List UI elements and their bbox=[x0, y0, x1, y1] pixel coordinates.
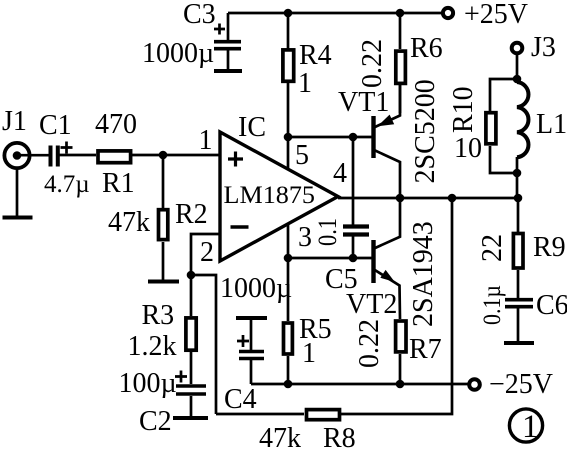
wire output to R9 bbox=[517, 198, 520, 232]
svg-text:1: 1 bbox=[302, 338, 316, 369]
ground (C6) bbox=[504, 341, 534, 345]
node input/R2 junction bbox=[159, 151, 168, 160]
node output/feedback bbox=[448, 194, 457, 203]
wire pin3 bbox=[288, 224, 372, 258]
ground (R2) bbox=[148, 280, 179, 284]
wire pin2 node to feedback bbox=[191, 275, 216, 414]
svg-text:+25V: +25V bbox=[464, 0, 528, 30]
svg-text:0.22: 0.22 bbox=[354, 319, 385, 368]
terminal +25V bbox=[443, 0, 528, 30]
svg-text:IC: IC bbox=[238, 112, 266, 143]
wire R2 to ground bbox=[162, 242, 165, 280]
wire J1 to ground bbox=[16, 168, 19, 216]
capacitor C3 bbox=[142, 0, 241, 69]
resistor R9 bbox=[477, 232, 566, 268]
svg-text:10: 10 bbox=[454, 133, 482, 164]
wire R9 to C6 bbox=[517, 270, 520, 298]
wire R8 to pin2 branch bbox=[216, 413, 304, 416]
capacitor C4 ground bar bbox=[236, 316, 267, 320]
svg-text:R6: R6 bbox=[410, 33, 443, 64]
resistor R10 bbox=[448, 86, 496, 164]
svg-text:J1: J1 bbox=[2, 106, 27, 137]
svg-text:4: 4 bbox=[333, 158, 347, 189]
svg-text:2SC5200: 2SC5200 bbox=[410, 79, 441, 183]
svg-text:1.2k: 1.2k bbox=[128, 331, 177, 362]
wire J1 to C1 bbox=[17, 154, 50, 157]
wire rail to R4 bbox=[287, 13, 290, 49]
svg-text:1: 1 bbox=[298, 68, 312, 99]
svg-text:5: 5 bbox=[295, 140, 309, 171]
capacitor C6 bbox=[479, 285, 567, 341]
node L1/R10 top bbox=[513, 75, 522, 84]
node pin5 bbox=[284, 133, 293, 142]
node R7/-25V rail bbox=[396, 380, 405, 389]
resistor R8 bbox=[259, 410, 356, 451]
svg-text:J3: J3 bbox=[531, 32, 556, 63]
svg-text:470: 470 bbox=[95, 109, 137, 140]
svg-text:0.1µ: 0.1µ bbox=[479, 285, 506, 325]
op-amp U1 LM1875 bbox=[220, 112, 338, 261]
resistor R3 bbox=[128, 275, 197, 362]
svg-text:47k: 47k bbox=[108, 207, 150, 238]
svg-text:47k: 47k bbox=[259, 423, 301, 451]
svg-text:0.1: 0.1 bbox=[313, 218, 342, 246]
svg-text:2SA1943: 2SA1943 bbox=[408, 221, 439, 327]
svg-text:1: 1 bbox=[199, 125, 213, 156]
svg-text:L1: L1 bbox=[536, 109, 567, 140]
svg-text:VT2: VT2 bbox=[346, 289, 397, 320]
node C5 bottom bbox=[349, 254, 358, 263]
ground (C2) bbox=[173, 416, 208, 420]
node pin2/R3 bbox=[187, 271, 196, 280]
svg-text:4.7µ: 4.7µ bbox=[44, 171, 90, 198]
svg-text:C2: C2 bbox=[139, 406, 172, 437]
wire pin2 bbox=[191, 234, 220, 275]
wire pin5 to VT1 base bbox=[288, 136, 372, 139]
svg-text:C3: C3 bbox=[183, 0, 216, 30]
capacitor C1 bbox=[39, 110, 90, 198]
resistor R2 bbox=[108, 199, 208, 240]
svg-text:C4: C4 bbox=[224, 384, 257, 415]
transistor Q2 VT2 bbox=[346, 198, 439, 327]
node rail/R6 bbox=[396, 9, 405, 18]
resistor R4 bbox=[283, 40, 332, 99]
svg-text:R8: R8 bbox=[323, 423, 356, 451]
svg-text:2: 2 bbox=[200, 237, 214, 268]
svg-text:0.22: 0.22 bbox=[357, 39, 388, 88]
svg-text:VT1: VT1 bbox=[338, 87, 389, 118]
svg-text:R4: R4 bbox=[299, 40, 332, 71]
node pin3/R5 bbox=[284, 254, 293, 263]
wire R4 to pin5 node bbox=[287, 82, 290, 169]
wire R7 to -25V rail bbox=[399, 354, 402, 384]
-25V rail bbox=[251, 383, 468, 386]
ground (C3) bbox=[214, 69, 242, 73]
capacitor C5 bbox=[313, 137, 369, 295]
node C5 top bbox=[349, 133, 358, 142]
svg-text:100µ: 100µ bbox=[119, 368, 177, 399]
output rail bbox=[338, 197, 518, 200]
wire C1 to R1 bbox=[60, 154, 97, 157]
svg-text:C6: C6 bbox=[536, 290, 567, 321]
svg-text:R3: R3 bbox=[142, 300, 175, 331]
wire node to R2 bbox=[162, 155, 165, 208]
figure number 1 bbox=[509, 409, 542, 445]
svg-text:1000µ: 1000µ bbox=[142, 38, 214, 69]
ground (J1) bbox=[3, 216, 33, 220]
svg-text:1000µ: 1000µ bbox=[220, 273, 292, 304]
connector J1 bbox=[2, 106, 30, 168]
svg-text:C1: C1 bbox=[39, 110, 72, 141]
capacitor C4 bbox=[220, 273, 292, 415]
svg-text:3: 3 bbox=[298, 222, 312, 253]
svg-text:LM1875: LM1875 bbox=[224, 182, 316, 209]
svg-text:R2: R2 bbox=[175, 199, 208, 230]
svg-text:1: 1 bbox=[522, 409, 539, 445]
node R5/-25V rail bbox=[284, 380, 293, 389]
inductor L1 bbox=[517, 82, 567, 157]
wire R6 to VT1 collector bbox=[399, 85, 402, 113]
node rail/R4 bbox=[284, 9, 293, 18]
resistor R7 bbox=[354, 319, 442, 368]
svg-text:R7: R7 bbox=[409, 334, 442, 365]
svg-text:R1: R1 bbox=[102, 168, 135, 199]
resistor R1 bbox=[95, 109, 137, 199]
wire L1 to output rail bbox=[516, 157, 519, 198]
wire R1 to IC pin1 bbox=[132, 154, 220, 157]
node output/VT bbox=[396, 194, 405, 203]
svg-text:−25V: −25V bbox=[489, 369, 553, 400]
transistor Q1 VT1 bbox=[338, 79, 441, 198]
svg-text:R9: R9 bbox=[533, 232, 566, 263]
svg-text:R10: R10 bbox=[448, 86, 479, 133]
resistor R5 bbox=[284, 258, 332, 384]
svg-text:22: 22 bbox=[477, 234, 508, 262]
node output/R9 bbox=[514, 194, 523, 203]
capacitor C2 bbox=[119, 351, 207, 437]
terminal -25V bbox=[469, 369, 553, 400]
feedback wire output to R8 bbox=[341, 198, 452, 414]
wire rail to R6 bbox=[399, 13, 402, 49]
terminal J3 bbox=[512, 32, 556, 63]
wire R10 branch bottom bbox=[490, 146, 517, 173]
wire R10 branch top bbox=[490, 79, 517, 112]
node L1/R10 bottom bbox=[513, 169, 522, 178]
wire J3 down bbox=[516, 53, 519, 82]
wire +25V rail bbox=[228, 12, 441, 15]
resistor R6 bbox=[357, 33, 443, 88]
